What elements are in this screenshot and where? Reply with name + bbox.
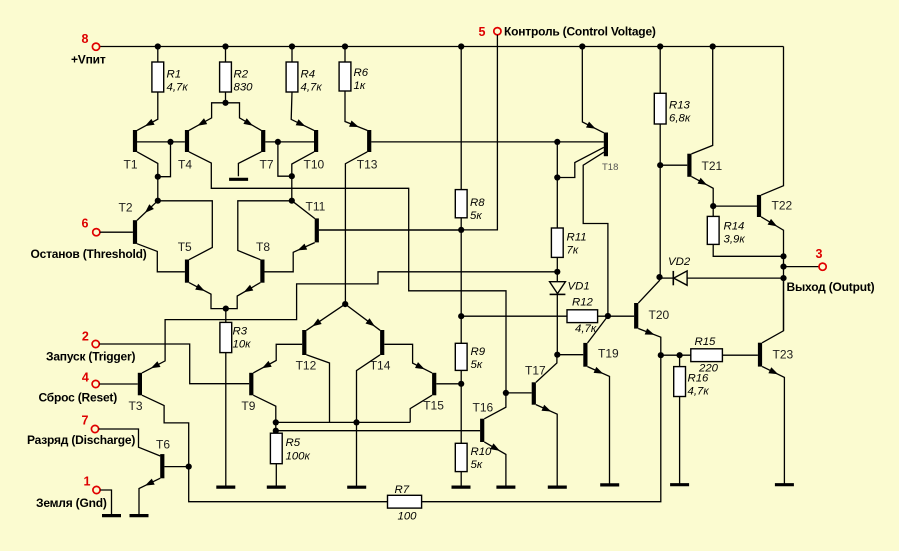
wire R12 to T20 base [598, 315, 635, 317]
wire T8 base to T11 emitter [264, 243, 314, 272]
svg-text:T4: T4 [178, 157, 192, 171]
arrow T7 emitter [243, 118, 253, 126]
svg-text:Сброс (Reset): Сброс (Reset) [39, 391, 118, 405]
resistor R8 [455, 190, 467, 218]
svg-text:8: 8 [82, 32, 89, 46]
arrow T8 emitter [244, 285, 254, 292]
svg-text:T9: T9 [241, 399, 255, 413]
wire T9 collector to R5 [253, 395, 275, 433]
wire T20 collector to VD2 node [638, 277, 659, 303]
junction T1 base collector tie [167, 139, 173, 145]
svg-text:4,7к: 4,7к [167, 82, 189, 94]
transistor T7 [261, 130, 265, 152]
arrow T3 emitter [151, 361, 161, 368]
wire pin4 to T3 base [99, 383, 138, 385]
svg-text:R2: R2 [234, 69, 249, 81]
transistor T4 [185, 130, 189, 152]
svg-text:T21: T21 [702, 159, 723, 173]
svg-text:R11: R11 [567, 232, 587, 244]
wire R9 to R10 [460, 370, 462, 443]
wire rail to R6 [344, 47, 346, 63]
transistor T5 [185, 260, 189, 283]
resistor R1 [152, 62, 164, 92]
junction VD1 T19 base T17 collector [554, 352, 560, 358]
svg-text:Останов (Threshold): Останов (Threshold) [31, 247, 147, 261]
arrow T17 emitter [542, 405, 552, 412]
svg-text:1: 1 [84, 475, 91, 489]
transistor T9 [249, 373, 253, 396]
transistor T6 [160, 454, 164, 478]
wire T19 emitter to ground [588, 367, 610, 485]
wire pin1 to ground [100, 490, 111, 516]
wire T22 emitter to output column [761, 217, 783, 331]
wire R1 to T1 emitter [137, 92, 158, 130]
resistor R12 [567, 310, 598, 323]
transistor T22 [757, 195, 761, 217]
svg-text:3: 3 [816, 247, 823, 261]
svg-text:4,7к: 4,7к [688, 386, 710, 398]
resistor R7 [388, 495, 422, 508]
wire T16 emitter to ground [484, 442, 506, 487]
svg-text:R15: R15 [695, 336, 717, 348]
wire VD1 cathode to T19 base node [556, 294, 558, 354]
junction output R14 [780, 253, 786, 259]
junction rail R2 [222, 43, 228, 49]
svg-text:5к: 5к [470, 210, 482, 222]
ground R10 [452, 486, 471, 489]
transistor T17 [532, 382, 536, 404]
wire T17 emitter to ground [536, 405, 557, 488]
junction rail R6 [342, 43, 348, 49]
svg-text:T3: T3 [129, 399, 143, 413]
arrow T14 emitter [366, 318, 375, 326]
wire T20 emitter [638, 329, 661, 356]
arrow T11 emitter [298, 244, 308, 251]
wire T4 collector route to T17 base node [189, 152, 506, 393]
wire T15 collector [410, 395, 432, 422]
wire T3 emitter route to VD1 node [142, 272, 557, 373]
wire R16 to ground [679, 397, 681, 485]
transistor T21 [687, 154, 691, 177]
svg-text:R14: R14 [724, 221, 745, 233]
svg-text:6: 6 [82, 217, 89, 231]
resistor R5 [270, 433, 282, 464]
wire pin5 to node CV (T11 base) [319, 35, 498, 230]
arrow T6 emitter [145, 479, 155, 486]
wire T2 collector to T5 base [137, 244, 185, 272]
svg-text:R1: R1 [167, 69, 182, 81]
wire T9 emitter to T12 base [253, 344, 302, 373]
junction R2 bottom [222, 100, 228, 106]
wire rail to R8 [460, 47, 462, 190]
wire R5 to ground [275, 464, 277, 487]
wire T7 collector [238, 152, 261, 177]
ground T7 collector [229, 178, 248, 181]
transistor T16 [480, 419, 484, 442]
wire rail to R1 [157, 47, 159, 63]
junction R8 node CV [458, 227, 464, 233]
wire T6 base [164, 466, 188, 468]
wire T13 base to T18 base [371, 141, 604, 143]
arrow T21 emitter [698, 178, 708, 185]
svg-text:Запуск (Trigger): Запуск (Trigger) [46, 350, 136, 364]
wire R6 to T13 emitter [345, 91, 367, 130]
wire R2 to T4 emitter [189, 103, 226, 131]
wire R2 bottom [225, 92, 227, 103]
wire R3 to ground [225, 353, 227, 488]
svg-text:T6: T6 [156, 438, 170, 452]
wire R10 to ground [460, 472, 462, 488]
svg-text:R3: R3 [233, 326, 248, 338]
junction R8R9 with R12 line [458, 313, 464, 319]
junction T21 emitter R14 T22 base [710, 203, 716, 209]
arrow T19 emitter [594, 367, 604, 374]
wire T14 collector to ground [357, 355, 381, 487]
wire T1 base-collector tie [158, 142, 171, 177]
wire T1 collector down [137, 152, 158, 201]
wire to R16 [679, 355, 681, 366]
wire T11 base to node CV [319, 229, 461, 231]
junction R9 bottom T15 base [458, 381, 464, 387]
wire T2 emitter [137, 201, 158, 221]
transistor T8 [260, 260, 264, 283]
arrow T22 emitter [768, 219, 778, 227]
svg-text:R12: R12 [572, 297, 594, 309]
pin 8 terminal [92, 43, 99, 50]
svg-text:R7: R7 [395, 484, 410, 496]
transistor T3 [138, 373, 142, 396]
wire R14 to output node [713, 244, 783, 256]
wire output to T23 collector [762, 278, 783, 343]
wire T19 base [557, 354, 583, 356]
junction R13 T21 base [657, 162, 663, 168]
diode VD2 [660, 277, 674, 279]
junction T16 collector T17 base [503, 390, 509, 396]
transistor T1 [133, 130, 137, 152]
svg-text:Контроль (Control Voltage): Контроль (Control Voltage) [504, 25, 656, 39]
junction T6 base [186, 464, 192, 470]
svg-text:Разряд (Discharge): Разряд (Discharge) [27, 433, 135, 447]
svg-text:R9: R9 [471, 346, 486, 358]
arrow T5 emitter [195, 284, 205, 291]
arrow T15 emitter [415, 362, 425, 369]
svg-text:10к: 10к [233, 339, 252, 351]
ground R3 [216, 486, 235, 489]
wire T7 base to T10 base [265, 141, 314, 143]
junction T12T14 emitters [342, 301, 348, 307]
wire R4 to T10 emitter [291, 92, 314, 130]
wire T12 emitter [306, 304, 345, 330]
svg-text:VD1: VD1 [568, 281, 590, 293]
pin 2 terminal [92, 340, 99, 347]
svg-text:+Vпит: +Vпит [71, 53, 106, 67]
svg-text:T23: T23 [773, 348, 794, 362]
svg-text:7: 7 [82, 414, 89, 428]
ground R16 [670, 483, 689, 486]
junction T5T8 emitters R3 [223, 306, 229, 312]
junction output VD2 [780, 275, 786, 281]
junction rail T21 [710, 43, 716, 49]
svg-text:R6: R6 [354, 67, 369, 79]
arrow T9 emitter [262, 361, 272, 368]
svg-text:R8: R8 [470, 197, 485, 209]
wire R15 to T23 base [722, 354, 758, 356]
ground T6 [130, 514, 149, 517]
wire R2 to T7 emitter [226, 103, 262, 131]
junction T20 base [605, 313, 611, 319]
ground T14 collector [347, 486, 366, 489]
wire T19 collector to T20 base node [588, 316, 608, 343]
wire R12 line [461, 315, 567, 317]
svg-text:R10: R10 [471, 446, 493, 458]
junction T18 base R11 column [554, 139, 560, 145]
arrow T4 emitter [198, 118, 208, 125]
ground R5 [267, 486, 286, 489]
resistor R6 [339, 62, 351, 91]
svg-text:5к: 5к [471, 459, 483, 471]
wire T18 base to R11 [556, 142, 558, 228]
svg-text:100: 100 [398, 511, 418, 523]
junction T14 collector R5 line [353, 419, 359, 425]
resistor R16 [674, 367, 686, 397]
transistor T18 [604, 133, 608, 157]
wire T3 collector to T6 base node [142, 395, 189, 466]
junction rail R1 [155, 43, 161, 49]
wire T21 base [660, 164, 687, 166]
svg-text:Выход (Output): Выход (Output) [787, 280, 875, 294]
junction T1 collector T2 emitter [155, 198, 161, 204]
svg-text:100к: 100к [286, 451, 311, 463]
pin 1 terminal [93, 486, 100, 493]
svg-text:R4: R4 [301, 69, 316, 81]
junction T10 collector tie [289, 173, 295, 179]
svg-text:T11: T11 [306, 199, 326, 213]
wire T18 collector 2 to T20 base node [583, 152, 608, 316]
wire T5 emitter to R3 node [189, 283, 226, 309]
svg-text:R5: R5 [286, 437, 301, 449]
pin 3 terminal [819, 263, 826, 270]
pin 6 terminal [93, 229, 100, 236]
svg-text:R13: R13 [669, 100, 691, 112]
svg-text:T13: T13 [357, 157, 378, 171]
wire T18 emitter from rail [582, 47, 604, 133]
svg-text:1к: 1к [354, 80, 366, 92]
junction rail R4 [289, 43, 295, 49]
wire R8 to R9 [460, 218, 462, 343]
wire T15 base to R9 node [436, 383, 461, 385]
arrow T23 emitter [768, 367, 778, 374]
wire T23 emitter to ground [762, 367, 784, 485]
svg-text:T19: T19 [598, 347, 619, 361]
wire T20 emitter to R15 [661, 354, 691, 356]
junction VD1 anode node [554, 269, 560, 275]
node +V rail [100, 46, 784, 48]
svg-text:3,9к: 3,9к [724, 234, 746, 246]
transistor T2 [133, 220, 137, 244]
junction output pin3 [780, 264, 786, 270]
ground pin 1 [102, 514, 121, 517]
arrow T10 emitter [296, 119, 306, 126]
wire T17 collector to T19 base node [536, 355, 557, 383]
svg-text:7к: 7к [567, 245, 579, 257]
wire T12 collector down [306, 355, 329, 423]
arrow T2 emitter [145, 204, 154, 213]
wire T21 collector to rail [692, 47, 713, 154]
arrow T18 emitter [586, 122, 596, 129]
svg-text:T15: T15 [423, 398, 444, 412]
arrow T20 emitter [645, 328, 655, 334]
arrow T12 emitter [312, 319, 322, 327]
pin 7 terminal [91, 425, 98, 432]
wire rail to R13 [659, 47, 661, 94]
svg-text:4,7к: 4,7к [575, 323, 597, 335]
svg-text:T20: T20 [649, 308, 670, 322]
transistor T23 [758, 343, 762, 367]
svg-text:T22: T22 [772, 199, 793, 213]
wire R5 node to T16 base [276, 430, 480, 432]
transistor T10 [314, 130, 318, 152]
pin 5 terminal [494, 28, 501, 35]
resistor R11 [551, 228, 563, 257]
resistor R4 [286, 62, 298, 92]
resistor R3 [220, 322, 232, 352]
transistor T13 [367, 130, 371, 152]
wire rail to R4 [291, 47, 293, 63]
svg-text:5к: 5к [471, 359, 483, 371]
svg-text:4: 4 [82, 371, 89, 385]
svg-text:T1: T1 [124, 157, 138, 171]
svg-text:6,8к: 6,8к [669, 113, 691, 125]
wire T22 base [713, 205, 757, 207]
junction R5 node lower [273, 428, 279, 434]
transistor T12 [302, 330, 306, 355]
wire T14 base to T15 emitter [384, 344, 432, 373]
junction rail R13 [657, 43, 663, 49]
arrow T1 emitter [145, 119, 155, 126]
wire T11 collector [292, 201, 315, 219]
wire T10 collector down [292, 152, 314, 201]
wire T8 emitter to R3 node [226, 283, 261, 309]
wire T14 emitter [345, 304, 380, 330]
wire T17 base [506, 392, 532, 394]
wire T8 collector up to T11 node [238, 201, 292, 260]
wire pin6 to T2 base [100, 231, 133, 233]
svg-text:5: 5 [479, 25, 486, 39]
svg-text:4,7к: 4,7к [301, 82, 323, 94]
svg-text:T5: T5 [178, 240, 192, 254]
svg-text:T18: T18 [602, 162, 618, 173]
svg-text:T7: T7 [260, 157, 274, 171]
svg-text:830: 830 [234, 82, 254, 94]
wire T18 collector 1 to R11 top [557, 147, 604, 177]
ground T17 [548, 486, 567, 489]
resistor R10 [455, 443, 467, 471]
wire pin7 to T6 collector [99, 429, 161, 456]
ground T16 [496, 486, 515, 489]
junction T10 collector T11 node [289, 198, 295, 204]
wire T1 base to T4 base [137, 141, 185, 143]
wire T7T10 base to T10 collector tie [278, 142, 292, 176]
wire T21 emitter [692, 177, 714, 217]
transistor T15 [432, 373, 436, 396]
wire R13 to VD2 node [659, 124, 661, 277]
wire T16 collector [484, 393, 506, 419]
svg-text:T2: T2 [119, 201, 133, 215]
pin 4 terminal [92, 380, 99, 387]
resistor R9 [455, 343, 467, 370]
transistor T19 [583, 343, 587, 367]
svg-text:R16: R16 [688, 373, 710, 385]
junction R11 top [554, 174, 560, 180]
junction T7T10 base tie [275, 139, 281, 145]
svg-text:T8: T8 [256, 240, 270, 254]
junction T20 emitter R7 column [658, 352, 664, 358]
junction T20 collector VD2 R13 [656, 274, 662, 280]
resistor R2 [220, 62, 232, 92]
transistor T14 [380, 330, 384, 355]
junction rail T18 [579, 43, 585, 49]
svg-text:2: 2 [82, 330, 89, 344]
wire rail to R2 [225, 47, 227, 63]
wire R11 to VD1 [556, 257, 558, 281]
junction T1 collector [155, 174, 161, 180]
junction rail R8 [458, 43, 464, 49]
wire bottom rail left to T6 base [189, 467, 388, 502]
resistor R14 [707, 216, 719, 244]
svg-text:Земля (Gnd): Земля (Gnd) [36, 496, 107, 510]
resistor R13 [654, 93, 666, 124]
svg-text:VD2: VD2 [668, 256, 691, 268]
wire R5 node upper horizontal [276, 421, 410, 423]
arrow T16 emitter [490, 443, 500, 451]
svg-text:T12: T12 [296, 358, 317, 372]
wire pin2 to T9 base [99, 344, 249, 384]
wire to R3 [225, 309, 227, 323]
transistor T11 [315, 218, 319, 242]
junction R5 node upper [273, 419, 279, 425]
wire output to pin3 [784, 266, 819, 268]
diode VD1 [550, 282, 566, 294]
transistor T20 [634, 303, 638, 329]
ground T23 [775, 483, 794, 486]
ground T19 [600, 483, 619, 486]
wire T5 collector up [158, 201, 213, 260]
wire VD2 to output node [687, 277, 783, 279]
arrow T13 emitter [349, 121, 359, 128]
resistor R15 [691, 349, 723, 362]
svg-text:T16: T16 [473, 401, 494, 415]
wire T13 collector to T12T14 emitters [345, 152, 367, 304]
svg-text:T10: T10 [304, 157, 325, 171]
junction R16 top [677, 352, 683, 358]
wire rail to T22 collector [761, 47, 783, 196]
wire bottom rail right [422, 355, 661, 502]
wire T6 emitter to ground [139, 478, 160, 515]
